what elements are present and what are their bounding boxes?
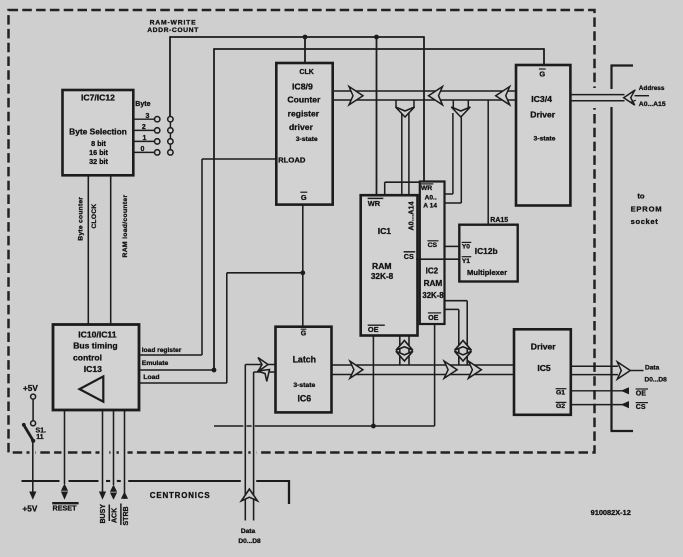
svg-text:IC10/IC11: IC10/IC11 — [78, 330, 116, 340]
svg-text:Load: Load — [143, 374, 159, 381]
svg-text:CS: CS — [636, 404, 646, 411]
svg-text:A0...A14: A0...A14 — [408, 201, 415, 230]
svg-text:32K-8: 32K-8 — [422, 291, 444, 300]
svg-text:+5V: +5V — [23, 384, 38, 393]
svg-text:8 bit: 8 bit — [91, 139, 106, 148]
svg-text:3-state: 3-state — [293, 382, 315, 389]
svg-text:ACK: ACK — [112, 508, 119, 523]
svg-text:32 bit: 32 bit — [89, 157, 108, 166]
svg-text:EPROM: EPROM — [631, 204, 663, 213]
svg-text:Data: Data — [645, 364, 660, 371]
svg-text:control: control — [73, 353, 102, 363]
svg-text:RAM: RAM — [372, 261, 392, 271]
svg-text:IC1: IC1 — [378, 226, 392, 236]
svg-text:G: G — [301, 193, 307, 202]
svg-text:G1: G1 — [556, 390, 565, 397]
svg-text:Driver: Driver — [530, 109, 555, 119]
svg-text:Driver: Driver — [531, 342, 556, 352]
svg-text:IC2: IC2 — [426, 267, 439, 276]
svg-text:RAM load/counter: RAM load/counter — [122, 194, 129, 257]
svg-text:IC5: IC5 — [537, 363, 551, 373]
svg-text:RLOAD: RLOAD — [278, 156, 306, 165]
svg-text:RESET: RESET — [53, 503, 78, 512]
svg-text:to: to — [637, 191, 645, 200]
svg-text:G2: G2 — [556, 403, 565, 410]
svg-text:RA15: RA15 — [490, 217, 508, 224]
svg-text:Y1: Y1 — [462, 258, 470, 265]
svg-text:CS: CS — [428, 242, 438, 249]
svg-text:D0...D8: D0...D8 — [645, 376, 668, 383]
svg-text:BUSY: BUSY — [100, 504, 107, 524]
svg-text:OE: OE — [428, 313, 439, 322]
svg-text:OE: OE — [636, 390, 646, 397]
svg-text:3: 3 — [146, 113, 150, 120]
svg-text:RAM-WRITE: RAM-WRITE — [150, 19, 197, 26]
svg-text:G: G — [301, 331, 307, 338]
svg-text:D0...D8: D0...D8 — [238, 538, 261, 545]
svg-text:IC7/IC12: IC7/IC12 — [81, 93, 115, 103]
svg-text:STRB: STRB — [123, 506, 130, 525]
svg-text:WR: WR — [421, 185, 432, 192]
svg-text:IC6: IC6 — [297, 394, 311, 404]
svg-text:ADDR-COUNT: ADDR-COUNT — [147, 27, 199, 34]
svg-text:Data: Data — [241, 528, 256, 535]
svg-text:load register: load register — [142, 347, 182, 354]
svg-text:32K-8: 32K-8 — [371, 272, 394, 281]
svg-text:CLOCK: CLOCK — [91, 204, 98, 229]
svg-text:910082X-12: 910082X-12 — [591, 508, 631, 517]
svg-text:CLK: CLK — [299, 69, 313, 76]
svg-text:Counter: Counter — [287, 94, 321, 104]
svg-text:Byte Selection: Byte Selection — [69, 126, 127, 136]
svg-text:IC13: IC13 — [84, 364, 102, 374]
svg-text:Emulate: Emulate — [142, 360, 169, 367]
svg-text:3-state: 3-state — [534, 135, 556, 142]
svg-text:3-state: 3-state — [296, 136, 318, 143]
svg-text:1: 1 — [142, 135, 146, 142]
svg-text:OE: OE — [368, 325, 379, 334]
svg-text:register: register — [288, 109, 320, 119]
svg-text:11: 11 — [36, 434, 44, 441]
svg-text:2: 2 — [142, 124, 146, 131]
svg-text:A 14: A 14 — [423, 203, 437, 210]
svg-text:driver: driver — [289, 122, 314, 132]
svg-text:G: G — [539, 69, 545, 78]
svg-text:WR: WR — [368, 199, 381, 208]
svg-text:IC12b: IC12b — [475, 246, 498, 256]
svg-text:CS: CS — [404, 252, 414, 261]
svg-text:Multiplexer: Multiplexer — [467, 268, 507, 277]
svg-text:Address: Address — [639, 85, 665, 92]
svg-text:A0...A15: A0...A15 — [639, 101, 666, 108]
svg-text:0: 0 — [141, 146, 145, 153]
svg-text:A0..: A0.. — [425, 195, 437, 202]
svg-text:Byte counter: Byte counter — [77, 197, 84, 241]
svg-text:+5V: +5V — [23, 504, 38, 513]
svg-text:Byte: Byte — [135, 101, 150, 108]
svg-text:RAM: RAM — [424, 279, 443, 288]
svg-text:Y0: Y0 — [462, 243, 470, 250]
svg-text:IC3/4: IC3/4 — [531, 94, 552, 104]
svg-text:IC8/9: IC8/9 — [292, 81, 313, 91]
svg-text:CENTRONICS: CENTRONICS — [150, 491, 211, 500]
svg-text:socket: socket — [631, 217, 659, 226]
svg-text:Latch: Latch — [293, 355, 316, 365]
svg-text:Bus timing: Bus timing — [73, 341, 117, 351]
